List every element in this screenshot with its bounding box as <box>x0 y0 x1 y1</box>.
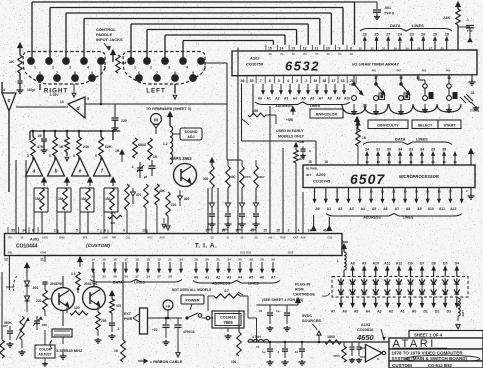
svg-text:12: 12 <box>142 229 146 233</box>
svg-text:R5: R5 <box>8 236 12 240</box>
svg-text:18: 18 <box>135 258 139 262</box>
svg-text:ADJUST: ADJUST <box>38 353 51 357</box>
svg-text:PA: PA <box>269 53 272 56</box>
svg-text:LINES: LINES <box>403 216 414 220</box>
svg-text:.001: .001 <box>384 6 391 10</box>
svg-text:29: 29 <box>271 258 275 262</box>
svg-text:A101: A101 <box>42 236 49 240</box>
svg-text:7805: 7805 <box>223 320 233 325</box>
svg-text:DATA: DATA <box>390 23 401 28</box>
svg-text:CO10745: CO10745 <box>313 179 331 184</box>
svg-text:COLOR: COLOR <box>39 348 52 352</box>
svg-text:3KT: 3KT <box>306 173 312 177</box>
svg-text:3.9: 3.9 <box>71 272 76 276</box>
svg-text:38: 38 <box>222 229 226 233</box>
svg-text:27: 27 <box>386 33 390 37</box>
svg-text:18: 18 <box>324 160 328 164</box>
svg-text:24K: 24K <box>83 145 90 149</box>
svg-text:31: 31 <box>409 160 413 164</box>
svg-text:SYSTEM (MAIN & SWITCH BOARD): SYSTEM (MAIN & SWITCH BOARD) <box>392 356 468 361</box>
svg-text:25: 25 <box>441 47 445 51</box>
svg-text:AU1: AU1 <box>147 236 153 240</box>
svg-text:1M: 1M <box>35 197 40 201</box>
svg-text:A301: A301 <box>30 238 39 242</box>
svg-text:33: 33 <box>359 47 363 51</box>
svg-text:= RIBBON CABLE: = RIBBON CABLE <box>150 360 183 364</box>
svg-text:31: 31 <box>382 47 386 51</box>
svg-text:8: 8 <box>350 46 352 50</box>
svg-text:b: b <box>54 169 57 175</box>
svg-text:A/6: A/6 <box>268 236 273 240</box>
svg-text:PA: PA <box>338 53 341 56</box>
svg-text:9: 9 <box>123 229 125 233</box>
svg-text:100: 100 <box>74 306 80 310</box>
svg-text:A7: A7 <box>319 96 323 100</box>
svg-text:9: 9 <box>339 46 341 50</box>
svg-text:30: 30 <box>394 47 398 51</box>
svg-text:B/W-COLOR: B/W-COLOR <box>316 113 337 117</box>
svg-text:R/W: R/W <box>280 236 286 240</box>
svg-text:7: 7 <box>56 71 58 75</box>
svg-text:A6: A6 <box>383 207 387 211</box>
svg-text:.01: .01 <box>258 309 263 313</box>
svg-text:A5: A5 <box>354 310 358 314</box>
svg-text:4K7: 4K7 <box>259 175 265 179</box>
svg-text:1K5: 1K5 <box>245 175 251 179</box>
svg-text:4: 4 <box>287 79 289 83</box>
svg-text:820: 820 <box>184 197 190 201</box>
svg-text:LINES: LINES <box>248 282 259 286</box>
svg-text:MPS 3563: MPS 3563 <box>172 156 192 161</box>
svg-text:34: 34 <box>124 275 128 279</box>
svg-text:62K: 62K <box>105 145 112 149</box>
svg-text:USED IN EARLY: USED IN EARLY <box>276 129 304 133</box>
svg-text:8: 8 <box>174 71 176 75</box>
svg-text:A2: A2 <box>216 276 220 280</box>
svg-text:1M: 1M <box>81 197 86 201</box>
svg-text:P60: P60 <box>446 69 451 73</box>
svg-text:4: 4 <box>298 229 300 233</box>
svg-text:19: 19 <box>365 160 369 164</box>
svg-text:LEFT: LEFT <box>146 88 165 95</box>
svg-text:40: 40 <box>250 229 254 233</box>
svg-text:15: 15 <box>268 46 272 50</box>
svg-text:A6: A6 <box>342 310 346 314</box>
svg-text:PA: PA <box>280 53 283 56</box>
svg-text:450: 450 <box>110 221 115 225</box>
svg-text:P6L: P6L <box>8 251 13 255</box>
svg-text:LA6: LA6 <box>103 236 108 240</box>
svg-text:34: 34 <box>146 275 150 279</box>
svg-text:30: 30 <box>205 258 209 262</box>
svg-text:13: 13 <box>403 189 407 193</box>
svg-text:4700: 4700 <box>333 354 340 358</box>
svg-text:P/R: P/R <box>112 236 116 240</box>
svg-text:A12: A12 <box>396 261 402 265</box>
svg-text:2N3706: 2N3706 <box>84 282 97 286</box>
svg-text:.001: .001 <box>32 286 39 290</box>
svg-text:CO-512 8/82: CO-512 8/82 <box>428 363 453 368</box>
svg-text:17: 17 <box>449 189 453 193</box>
svg-text:A7: A7 <box>395 207 399 211</box>
svg-text:A1: A1 <box>327 207 331 211</box>
svg-text:A4: A4 <box>366 310 370 314</box>
svg-text:33: 33 <box>102 275 106 279</box>
svg-text:DIFFICULTY: DIFFICULTY <box>377 124 399 128</box>
svg-text:5: 5 <box>27 154 29 158</box>
svg-text:17: 17 <box>374 76 378 80</box>
svg-text:40: 40 <box>323 229 327 233</box>
svg-text:(CUSTOM): (CUSTOM) <box>86 243 110 249</box>
svg-text:34: 34 <box>227 258 231 262</box>
svg-text:A0: A0 <box>194 276 198 280</box>
svg-text:300: 300 <box>203 177 209 181</box>
svg-text:PA: PA <box>350 53 353 56</box>
svg-text:11: 11 <box>381 189 385 193</box>
svg-text:6800: 6800 <box>138 143 146 147</box>
svg-text:9: 9 <box>87 97 89 101</box>
svg-text:24: 24 <box>179 258 183 262</box>
svg-text:30: 30 <box>168 275 172 279</box>
svg-text:28: 28 <box>417 47 421 51</box>
svg-text:37: 37 <box>205 229 209 233</box>
svg-text:30: 30 <box>442 148 446 152</box>
svg-text:+5/B: +5/B <box>297 140 305 144</box>
svg-text:2: 2 <box>150 66 152 70</box>
svg-text:30: 30 <box>113 275 117 279</box>
svg-text:3: 3 <box>3 88 5 92</box>
svg-text:O0T: O0T <box>293 236 298 240</box>
svg-text:e: e <box>79 169 82 175</box>
svg-text:32: 32 <box>370 47 374 51</box>
svg-text:PWR: PWR <box>124 317 133 321</box>
svg-text:a: a <box>33 169 36 175</box>
svg-text:7: 7 <box>156 71 158 75</box>
svg-text:35: 35 <box>250 79 254 83</box>
svg-text:A10: A10 <box>373 261 379 265</box>
svg-text:D3: D3 <box>447 310 451 314</box>
svg-text:21: 21 <box>420 160 424 164</box>
svg-text:A1: A1 <box>205 276 209 280</box>
svg-text:21: 21 <box>398 160 402 164</box>
svg-text:470: 470 <box>110 211 115 215</box>
svg-text:1K: 1K <box>362 136 367 140</box>
svg-text:36: 36 <box>249 258 253 262</box>
svg-text:5: 5 <box>76 229 78 233</box>
svg-text:D7: D7 <box>420 261 424 265</box>
svg-text:5: 5 <box>204 66 206 70</box>
svg-text:13: 13 <box>291 46 295 50</box>
svg-text:.1: .1 <box>466 18 469 22</box>
svg-text:A7: A7 <box>271 276 275 280</box>
svg-text:A4: A4 <box>238 276 242 280</box>
svg-text:D6: D6 <box>431 261 435 265</box>
svg-text:.01: .01 <box>294 350 298 354</box>
svg-text:10: 10 <box>326 46 330 50</box>
svg-text:A/W: A/W <box>300 236 306 240</box>
svg-text:26: 26 <box>363 33 367 37</box>
svg-text:+5/B: +5/B <box>286 118 294 122</box>
svg-text:31: 31 <box>376 148 380 152</box>
svg-text:26: 26 <box>276 229 280 233</box>
svg-text:A11: A11 <box>439 207 445 211</box>
svg-text:15: 15 <box>256 345 260 349</box>
svg-text:220: 220 <box>121 119 127 123</box>
svg-text:LINES: LINES <box>416 137 428 142</box>
svg-text:1μ: 1μ <box>262 350 266 354</box>
svg-text:A0: A0 <box>258 96 262 100</box>
svg-text:LINES: LINES <box>412 23 424 28</box>
svg-text:D0: D0 <box>408 261 412 265</box>
svg-text:18: 18 <box>453 160 457 164</box>
svg-text:5VDC: 5VDC <box>302 314 312 318</box>
svg-text:A7: A7 <box>331 310 335 314</box>
svg-text:4.7: 4.7 <box>224 289 229 293</box>
svg-text:A1: A1 <box>267 96 271 100</box>
svg-text:A102: A102 <box>250 56 260 61</box>
svg-text:A5: A5 <box>249 276 253 280</box>
svg-text:MODELS ONLY: MODELS ONLY <box>278 135 305 139</box>
svg-text:A8: A8 <box>406 207 410 211</box>
svg-text:110pf: 110pf <box>27 88 36 92</box>
svg-text:+22: +22 <box>152 328 158 332</box>
svg-text:T. I. A.: T. I. A. <box>195 243 218 250</box>
svg-text:2: 2 <box>305 79 307 83</box>
svg-text:A200: A200 <box>316 172 326 177</box>
svg-text:C6L: C6L <box>126 236 131 240</box>
svg-text:MICROPROCESSOR: MICROPROCESSOR <box>399 174 439 179</box>
svg-text:A10: A10 <box>428 207 434 211</box>
svg-text:A9: A9 <box>336 96 340 100</box>
svg-text:16: 16 <box>437 189 441 193</box>
svg-text:6532: 6532 <box>285 59 320 74</box>
svg-text:CO10816: CO10816 <box>357 328 373 332</box>
svg-text:470: 470 <box>299 157 305 161</box>
svg-text:A4: A4 <box>293 96 297 100</box>
svg-text:100: 100 <box>231 360 237 364</box>
svg-text:2N3796: 2N3796 <box>50 282 63 286</box>
svg-text:1: 1 <box>34 66 36 70</box>
svg-text:27: 27 <box>429 47 433 51</box>
svg-text:SELECT: SELECT <box>418 124 433 128</box>
svg-text:A9: A9 <box>417 207 421 211</box>
svg-text:34: 34 <box>22 229 26 233</box>
svg-text:CO10618: CO10618 <box>220 316 235 320</box>
svg-text:5: 5 <box>104 66 106 70</box>
svg-text:26: 26 <box>431 160 435 164</box>
svg-text:8: 8 <box>74 71 76 75</box>
svg-text:1K: 1K <box>9 60 14 64</box>
svg-text:A2: A2 <box>275 96 279 100</box>
svg-text:PA: PA <box>292 53 295 56</box>
svg-text:c: c <box>8 98 11 104</box>
svg-text:A3: A3 <box>284 96 288 100</box>
svg-text:29: 29 <box>194 258 198 262</box>
svg-text:6P0: 6P0 <box>83 236 88 240</box>
svg-text:1: 1 <box>134 66 136 70</box>
svg-text:DM6: DM6 <box>59 236 65 240</box>
svg-text:12: 12 <box>303 46 307 50</box>
svg-text:21: 21 <box>392 189 396 193</box>
svg-text:A2: A2 <box>389 310 393 314</box>
svg-text:30: 30 <box>387 148 391 152</box>
svg-text:15: 15 <box>102 258 106 262</box>
svg-text:470: 470 <box>136 193 142 197</box>
svg-text:CARTRIDGE: CARTRIDGE <box>293 293 315 297</box>
svg-text:CO10750: CO10750 <box>246 62 264 67</box>
svg-text:1K: 1K <box>153 155 158 159</box>
svg-text:.01: .01 <box>470 91 475 95</box>
svg-text:A8: A8 <box>327 96 331 100</box>
svg-text:1K: 1K <box>59 145 64 149</box>
svg-text:A0: A0 <box>412 310 416 314</box>
svg-text:6507: 6507 <box>350 171 385 187</box>
svg-text:14: 14 <box>415 189 419 193</box>
svg-text:5: 5 <box>73 154 75 158</box>
svg-text:A3: A3 <box>349 207 353 211</box>
svg-text:40K: 40K <box>159 189 166 193</box>
svg-text:C51: C51 <box>328 236 333 240</box>
svg-text:4: 4 <box>87 66 89 70</box>
svg-text:14: 14 <box>307 229 311 233</box>
svg-text:14: 14 <box>91 258 95 262</box>
svg-text:1M: 1M <box>105 197 110 201</box>
svg-text:START: START <box>443 124 456 128</box>
svg-text:7: 7 <box>97 229 99 233</box>
svg-text:3: 3 <box>69 66 71 70</box>
svg-text:470: 470 <box>116 304 122 308</box>
svg-text:A5: A5 <box>301 96 305 100</box>
svg-text:SOUND: SOUND <box>185 130 198 134</box>
svg-text:1K: 1K <box>114 349 119 353</box>
svg-text:ADDRESS: ADDRESS <box>275 104 293 108</box>
svg-text:29: 29 <box>405 47 409 51</box>
svg-text:.047: .047 <box>2 324 8 328</box>
svg-text:A9: A9 <box>362 261 366 265</box>
svg-text:SOURCES: SOURCES <box>302 319 321 323</box>
svg-text:14: 14 <box>280 46 284 50</box>
svg-text:3: 3 <box>296 79 298 83</box>
svg-text:1K: 1K <box>115 149 120 153</box>
svg-text:29: 29 <box>431 148 435 152</box>
svg-text:12: 12 <box>157 258 161 262</box>
svg-text:220: 220 <box>36 299 42 303</box>
svg-text:SHEET 1 OF 4: SHEET 1 OF 4 <box>414 333 443 338</box>
svg-text:16: 16 <box>399 76 403 80</box>
svg-text:5: 5 <box>95 154 97 158</box>
svg-text:.05: .05 <box>37 134 42 138</box>
svg-text:P62: P62 <box>422 69 427 73</box>
svg-text:1M: 1M <box>121 61 126 65</box>
svg-text:24K: 24K <box>443 15 450 20</box>
svg-text:PLUG-IN: PLUG-IN <box>295 283 310 287</box>
svg-text:30: 30 <box>235 229 239 233</box>
svg-text:PA: PA <box>315 53 318 56</box>
svg-text:23: 23 <box>409 33 413 37</box>
svg-text:2: 2 <box>288 229 290 233</box>
svg-text:CUSTOM: CUSTOM <box>392 363 412 368</box>
svg-text:.1 25V: .1 25V <box>49 93 59 97</box>
svg-text:ADJ: ADJ <box>187 135 194 139</box>
svg-text:1M: 1M <box>58 197 63 201</box>
svg-text:25: 25 <box>263 229 267 233</box>
svg-text:.065: .065 <box>41 323 47 327</box>
svg-text:A4: A4 <box>361 207 365 211</box>
svg-text:A8: A8 <box>350 261 354 265</box>
svg-text:16: 16 <box>308 160 312 164</box>
svg-text:33: 33 <box>409 148 413 152</box>
svg-text:9: 9 <box>192 71 194 75</box>
svg-text:A10: A10 <box>344 96 350 100</box>
svg-text:4K: 4K <box>231 175 236 179</box>
svg-text:27: 27 <box>157 275 161 279</box>
svg-text:.1: .1 <box>277 350 280 354</box>
svg-text:11: 11 <box>40 258 44 262</box>
svg-text:9: 9 <box>91 71 93 75</box>
svg-text:A3: A3 <box>377 310 381 314</box>
svg-text:220: 220 <box>171 203 177 207</box>
svg-text:TO FIRMWARE (SHEET 3): TO FIRMWARE (SHEET 3) <box>146 107 192 111</box>
svg-text:12: 12 <box>4 258 8 262</box>
svg-text:38: 38 <box>322 79 326 83</box>
svg-text:35: 35 <box>238 258 242 262</box>
svg-text:4700/16: 4700/16 <box>183 330 195 334</box>
svg-text:+A: +A <box>166 305 171 309</box>
svg-text:19: 19 <box>146 258 150 262</box>
svg-text:1: 1 <box>54 229 56 233</box>
svg-text:A3: A3 <box>227 276 231 280</box>
svg-text:10: 10 <box>369 189 373 193</box>
svg-text:I/O URAM TIMER ARRAY: I/O URAM TIMER ARRAY <box>352 62 399 67</box>
svg-text:ADDRESS: ADDRESS <box>363 216 381 220</box>
svg-text:4: 4 <box>186 66 188 70</box>
svg-text:M: M <box>154 118 158 123</box>
svg-text:29: 29 <box>433 33 437 37</box>
svg-text:2: 2 <box>52 66 54 70</box>
svg-text:EXT: EXT <box>124 312 132 316</box>
svg-text:A5: A5 <box>372 207 376 211</box>
svg-text:ROM: ROM <box>295 288 304 292</box>
svg-text:14: 14 <box>376 160 380 164</box>
svg-text:LINES: LINES <box>310 104 321 108</box>
svg-text:17: 17 <box>124 258 128 262</box>
svg-text:3: 3 <box>168 66 170 70</box>
svg-text:.1: .1 <box>117 327 120 331</box>
svg-text:P67: P67 <box>397 69 402 73</box>
svg-text:5: 5 <box>278 79 280 83</box>
svg-text:A11: A11 <box>384 261 390 265</box>
svg-text:DATA: DATA <box>395 137 406 142</box>
svg-text:A0: A0 <box>315 207 319 211</box>
svg-text:37: 37 <box>332 79 336 83</box>
svg-text:N1 PWR: N1 PWR <box>306 167 317 171</box>
svg-text:37: 37 <box>135 275 139 279</box>
svg-text:11: 11 <box>314 46 318 50</box>
svg-text:POWER: POWER <box>186 299 200 303</box>
svg-text:A1: A1 <box>400 310 404 314</box>
svg-text:7: 7 <box>260 79 262 83</box>
svg-text:6: 6 <box>269 79 271 83</box>
svg-text:TYP 8: TYP 8 <box>384 12 394 16</box>
svg-text:18: 18 <box>442 160 446 164</box>
svg-text:28: 28 <box>260 258 264 262</box>
svg-text:39: 39 <box>313 79 317 83</box>
svg-text:1μ: 1μ <box>276 309 280 313</box>
svg-text:D2: D2 <box>435 310 439 314</box>
svg-text:6: 6 <box>138 71 140 75</box>
svg-text:PA: PA <box>327 53 330 56</box>
svg-text:A12: A12 <box>450 207 456 211</box>
